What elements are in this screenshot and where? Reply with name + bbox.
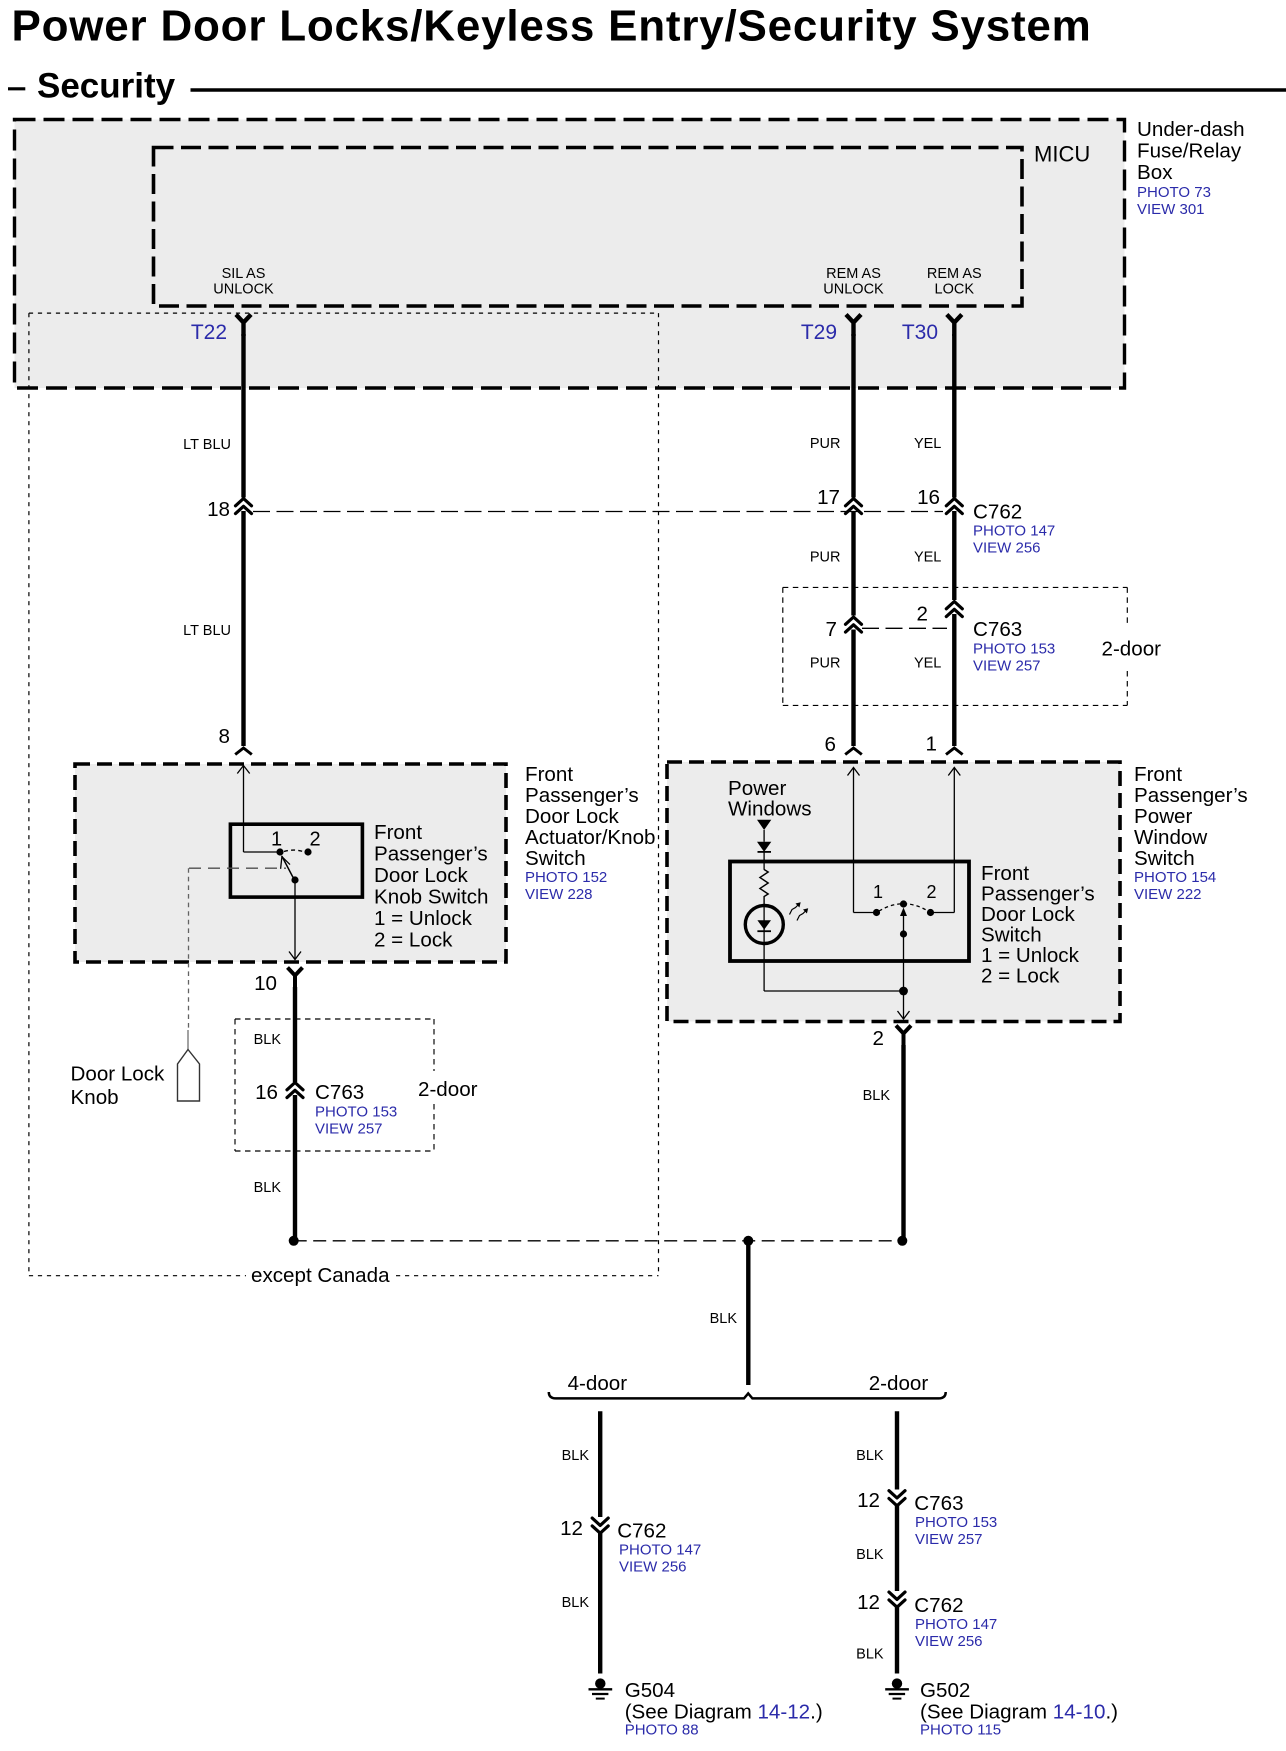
svg-text:VIEW 257: VIEW 257 [315, 1121, 383, 1138]
Front Passenger's Power Window Switch box [667, 762, 1120, 1022]
svg-text:BLK: BLK [254, 1032, 282, 1048]
connector C762 pin 12 (chevrons down) [592, 1518, 608, 1533]
svg-text:VIEW 301: VIEW 301 [1137, 201, 1205, 218]
svg-text:Power: Power [1134, 805, 1193, 828]
Under-dash Fuse/Relay Box (dashed box, gray fill) [15, 120, 1125, 389]
LED return wire [763, 944, 765, 992]
wire connector 17 to connector 7 (PUR) [851, 511, 855, 616]
svg-text:2-door: 2-door [1102, 637, 1162, 660]
connector C763 pin 2 (chevrons) [946, 602, 962, 617]
svg-text:Under-dash: Under-dash [1137, 118, 1245, 141]
svg-text:2: 2 [917, 602, 928, 625]
svg-text:2 = Lock: 2 = Lock [981, 965, 1060, 988]
svg-text:G504: G504 [625, 1679, 675, 1702]
svg-text:BLK: BLK [562, 1595, 590, 1611]
pin 6 connector (chevron into box) [845, 748, 862, 755]
switch throw dashed arc [879, 904, 928, 911]
wire connector 16 to connector 2 (YEL) [952, 511, 956, 600]
svg-text:BLK: BLK [856, 1547, 884, 1563]
svg-text:8: 8 [219, 725, 230, 748]
junction dot left [289, 1236, 299, 1246]
LED emission arrows [790, 905, 807, 921]
4-door / 2-door split bracket [549, 1392, 946, 1398]
ground G502 [885, 1678, 909, 1698]
terminal T30 (Y connector) [947, 315, 962, 337]
svg-text:C762: C762 [617, 1519, 666, 1542]
wire pin 1 to switch contact 2 (thin, arrow up) [934, 768, 960, 913]
Under-dash Fuse/Relay Box label [1137, 118, 1245, 218]
wire connector 18 to pin 8 (LT BLU) [241, 511, 245, 746]
wire pin8 into switch (thin, arrow up) [237, 766, 277, 853]
knob switch inner label [374, 821, 488, 952]
svg-text:BLK: BLK [562, 1448, 590, 1464]
pin 1 connector (chevron into box) [946, 748, 963, 755]
svg-text:LT BLU: LT BLU [183, 437, 231, 453]
svg-text:Passenger’s: Passenger’s [1134, 784, 1248, 807]
svg-text:2-door: 2-door [418, 1078, 478, 1101]
svg-text:VIEW 257: VIEW 257 [915, 1531, 983, 1548]
svg-text:VIEW 256: VIEW 256 [915, 1633, 983, 1650]
knob switch contact 1 [276, 848, 283, 855]
knob switch contact dashed throw [284, 850, 304, 852]
svg-text:12: 12 [857, 1489, 880, 1512]
terminal T22 (Y connector) [236, 315, 251, 337]
svg-text:PHOTO 153: PHOTO 153 [315, 1104, 397, 1121]
knob switch common pole [291, 876, 298, 883]
switch moving contact dot [900, 900, 907, 907]
svg-text:Power Door Locks/Keyless Entry: Power Door Locks/Keyless Entry/Security … [12, 2, 1092, 51]
svg-text:VIEW 222: VIEW 222 [1134, 886, 1202, 903]
wire T29 to connector 17 (PUR) [851, 334, 855, 498]
svg-text:LT BLU: LT BLU [183, 623, 231, 639]
window switch inner box [730, 862, 969, 962]
switch pole (arrow up) [900, 908, 907, 935]
svg-text:Switch: Switch [1134, 847, 1195, 870]
svg-text:REM AS: REM AS [826, 266, 881, 282]
svg-text:Front: Front [1134, 763, 1182, 786]
svg-text:Door Lock: Door Lock [374, 864, 469, 887]
svg-text:YEL: YEL [914, 656, 941, 672]
svg-text:1 = Unlock: 1 = Unlock [374, 907, 473, 930]
svg-text:C763: C763 [914, 1492, 963, 1515]
wire common to pin 10 (thin, arrow down) [289, 880, 301, 960]
svg-text:2-door: 2-door [869, 1372, 929, 1395]
svg-text:12: 12 [857, 1591, 880, 1614]
svg-text:YEL: YEL [914, 436, 941, 452]
svg-text:18: 18 [207, 498, 230, 521]
2-door dashed box (C763 upper) [783, 587, 1128, 705]
Front Passenger's Door Lock Actuator/Knob Switch box [75, 764, 506, 962]
svg-text:LOCK: LOCK [935, 282, 975, 298]
pole wire down to junction [903, 934, 905, 991]
svg-text:VIEW 257: VIEW 257 [973, 657, 1041, 674]
door lock switch contact 2 [927, 909, 934, 916]
svg-text:except Canada: except Canada [251, 1264, 390, 1287]
svg-text:PHOTO 152: PHOTO 152 [525, 869, 607, 886]
wire connector 2 to pin 1 (YEL) [952, 614, 956, 746]
svg-text:VIEW 228: VIEW 228 [525, 886, 593, 903]
ground bus dashed link [294, 1240, 903, 1242]
svg-text:PHOTO 154: PHOTO 154 [1134, 869, 1216, 886]
svg-text:UNLOCK: UNLOCK [213, 282, 274, 298]
svg-text:PHOTO 147: PHOTO 147 [973, 523, 1055, 540]
svg-text:PUR: PUR [810, 550, 841, 566]
svg-text:Window: Window [1134, 826, 1207, 849]
door lock switch label [981, 862, 1095, 988]
svg-text:T22: T22 [191, 321, 227, 344]
svg-text:T30: T30 [902, 321, 938, 344]
svg-text:Security: Security [37, 67, 176, 106]
svg-text:MICU: MICU [1034, 142, 1090, 167]
svg-text:PUR: PUR [810, 656, 841, 672]
connector C762 pin 18 (chevrons) [236, 499, 252, 514]
svg-text:REM AS: REM AS [927, 266, 982, 282]
svg-text:Switch: Switch [525, 847, 586, 870]
2-door dotted box (C763 left) [235, 1019, 434, 1151]
svg-text:BLK: BLK [863, 1088, 891, 1104]
except Canada dotted box [29, 313, 659, 1276]
svg-text:2: 2 [309, 829, 320, 851]
svg-text:C763: C763 [973, 618, 1022, 641]
svg-text:1: 1 [873, 882, 883, 902]
svg-text:Knob: Knob [71, 1086, 119, 1109]
svg-text:4-door: 4-door [568, 1372, 628, 1395]
pin 10 Y connector below knob box [288, 968, 303, 990]
svg-text:BLK: BLK [856, 1647, 884, 1663]
wire 2-door branch middle (BLK) [895, 1504, 899, 1592]
resistor (LED series) [760, 870, 768, 907]
wire connector 7 to pin 6 (PUR) [851, 630, 855, 747]
svg-text:UNLOCK: UNLOCK [823, 282, 884, 298]
connector C762 pin 17 (chevrons) [846, 499, 862, 514]
svg-text:Actuator/Knob: Actuator/Knob [525, 826, 656, 849]
svg-text:1: 1 [271, 829, 282, 851]
svg-text:6: 6 [825, 733, 836, 756]
door lock knob symbol [178, 1050, 200, 1102]
svg-text:YEL: YEL [914, 550, 941, 566]
svg-text:Passenger’s: Passenger’s [374, 843, 488, 866]
connector C763 pin 7 (chevrons) [846, 617, 862, 632]
svg-text:VIEW 256: VIEW 256 [973, 540, 1041, 557]
section header: Security [8, 67, 1286, 106]
svg-text:2: 2 [873, 1027, 884, 1050]
svg-text:G502: G502 [920, 1679, 970, 1702]
svg-text:16: 16 [917, 486, 940, 509]
svg-text:Fuse/Relay: Fuse/Relay [1137, 140, 1242, 163]
wire 2-door branch upper (BLK) [895, 1411, 899, 1489]
svg-text:PUR: PUR [810, 436, 841, 452]
wire T30 to connector 16 (YEL) [952, 334, 956, 498]
svg-text:BLK: BLK [254, 1180, 282, 1196]
knob switch inner box [230, 824, 362, 897]
actuator/knob switch outer label [525, 763, 656, 903]
power windows feed symbol (double arrow) [757, 820, 771, 870]
wire 2-door branch lower (BLK) [895, 1605, 899, 1674]
svg-text:PHOTO 153: PHOTO 153 [973, 640, 1055, 657]
wire pin 6 to switch contact 1 (thin, arrow up) [848, 768, 874, 913]
svg-text:Box: Box [1137, 161, 1173, 184]
svg-text:BLK: BLK [856, 1448, 884, 1464]
connector C763 pin 16 (chevrons) [287, 1083, 303, 1098]
svg-text:2: 2 [926, 882, 936, 902]
junction dot center [743, 1236, 753, 1246]
svg-text:12: 12 [560, 1517, 583, 1540]
svg-text:Knob Switch: Knob Switch [374, 886, 488, 909]
svg-text:(See Diagram 14-10.): (See Diagram 14-10.) [920, 1700, 1118, 1723]
internal junction [899, 987, 908, 996]
ground G504 [589, 1678, 613, 1698]
C763 pairing dashed line [862, 627, 947, 629]
C762 pairing dashed line [253, 511, 943, 513]
mechanical linkage to door lock knob (gray dashed) [188, 868, 286, 1049]
svg-text:PHOTO 73: PHOTO 73 [1137, 184, 1211, 201]
svg-text:PHOTO 153: PHOTO 153 [915, 1514, 997, 1531]
svg-text:Passenger’s: Passenger’s [525, 784, 639, 807]
svg-text:PHOTO 147: PHOTO 147 [619, 1541, 701, 1558]
svg-text:17: 17 [817, 486, 840, 509]
svg-text:16: 16 [255, 1081, 278, 1104]
svg-text:Door Lock: Door Lock [525, 805, 620, 828]
MICU box [154, 148, 1023, 307]
wire 4-door branch upper (BLK) [598, 1411, 602, 1517]
connector C762 pin 16 (chevrons) [946, 499, 962, 514]
wire junction to pin 2 (thin, arrow down) [898, 991, 910, 1019]
knob switch arm (common to contact 1, arrow) [281, 856, 295, 880]
wire connector 16 to junction (BLK) [293, 1095, 297, 1241]
svg-text:C763: C763 [315, 1081, 364, 1104]
wire pin 2 to junction (BLK) [901, 1045, 905, 1241]
svg-text:BLK: BLK [710, 1311, 738, 1327]
wire 4-door branch lower (BLK) [598, 1531, 602, 1674]
LED lamp (circle, down triangle) [745, 906, 783, 944]
svg-text:SIL AS: SIL AS [222, 266, 266, 282]
svg-text:7: 7 [826, 618, 837, 641]
pin 8 connector (chevron into box) [235, 748, 252, 755]
connector C763 pin 12 (chevrons down) [889, 1491, 905, 1506]
terminal T29 (Y connector) [846, 315, 861, 337]
svg-text:VIEW 256: VIEW 256 [619, 1558, 687, 1575]
svg-text:PHOTO 147: PHOTO 147 [915, 1616, 997, 1633]
power window switch outer label [1134, 763, 1248, 903]
svg-text:Front: Front [525, 763, 573, 786]
svg-text:(See Diagram 14-12.): (See Diagram 14-12.) [625, 1700, 823, 1723]
connector C762 pin 12 lower (chevrons down) [889, 1592, 905, 1607]
svg-text:PHOTO 88: PHOTO 88 [625, 1722, 699, 1739]
wire pin 10 to connector 16 (BLK) [293, 987, 297, 1082]
svg-text:Front: Front [374, 821, 422, 844]
svg-text:10: 10 [254, 972, 277, 995]
svg-text:C762: C762 [973, 500, 1022, 523]
svg-text:1: 1 [926, 733, 937, 756]
svg-text:Windows: Windows [728, 798, 812, 821]
svg-text:T29: T29 [801, 321, 837, 344]
wire center junction down (BLK) [746, 1241, 750, 1385]
wire T22 to connector 18 (LT BLU) [241, 334, 245, 498]
junction dot right [897, 1236, 907, 1246]
pin 2 Y connector below window box [896, 1026, 911, 1048]
svg-text:2 = Lock: 2 = Lock [374, 929, 453, 952]
svg-text:Door Lock: Door Lock [71, 1063, 166, 1086]
svg-text:PHOTO 115: PHOTO 115 [920, 1722, 1001, 1739]
knob switch contact 2 [304, 848, 311, 855]
svg-text:C762: C762 [914, 1594, 963, 1617]
door lock switch contact 1 [873, 909, 880, 916]
